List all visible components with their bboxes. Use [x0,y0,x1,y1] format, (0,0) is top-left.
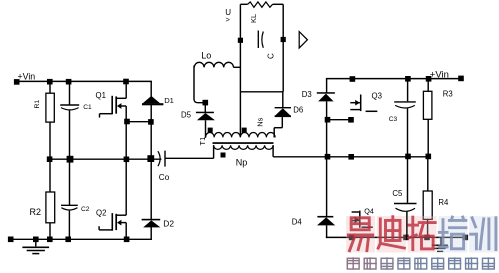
svg-text:C2: C2 [81,206,90,213]
svg-text:D6: D6 [293,106,303,115]
svg-text:+Vin: +Vin [430,70,449,81]
svg-text:Np: Np [236,157,248,167]
svg-text:D3: D3 [302,90,312,99]
svg-text:C1: C1 [83,104,92,111]
svg-text:R1: R1 [34,100,41,109]
svg-text:D2: D2 [163,219,174,229]
svg-text:+Vin: +Vin [18,71,36,81]
svg-text:Q3: Q3 [372,92,382,101]
svg-text:R2: R2 [30,207,42,217]
svg-text:R3: R3 [443,89,453,98]
svg-text:Lo: Lo [201,51,211,61]
svg-text:C3: C3 [389,116,398,123]
svg-text:>: > [226,15,231,24]
svg-text:T1: T1 [198,137,207,146]
svg-text:Ns: Ns [256,117,265,126]
svg-text:KL: KL [249,14,258,23]
svg-text:C: C [267,53,276,59]
svg-text:R4: R4 [438,198,449,207]
svg-text:Q2: Q2 [96,208,106,217]
svg-text:D4: D4 [292,217,303,226]
svg-text:Co: Co [159,173,170,182]
svg-text:D1: D1 [164,96,174,105]
svg-text:C5: C5 [392,189,403,198]
svg-text:D5: D5 [181,111,192,120]
svg-text:Q4: Q4 [364,206,374,215]
svg-text:Q1: Q1 [96,91,106,100]
